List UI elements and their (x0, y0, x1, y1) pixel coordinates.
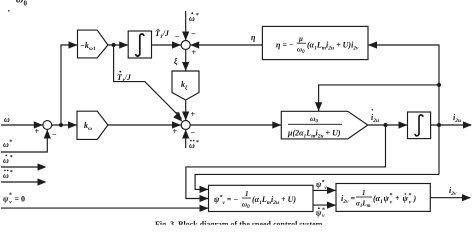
arrowhead i2v output right (462, 194, 471, 201)
arrowhead into integrator 1 (119, 41, 128, 48)
label i2u after integrator 2 (453, 113, 461, 124)
label omega-ddot-star below junction 2 (189, 140, 199, 150)
label -k_w1 inside pentagon (80, 41, 96, 52)
label omega0 top left (clipped) (16, 0, 28, 8)
integrator 2 (408, 112, 431, 139)
arrowhead into k_xi (182, 62, 189, 71)
label T1-dot/J on branch (117, 71, 132, 84)
arrowhead stub into summing junction 2 from below (182, 130, 189, 139)
node dot after integrator 2 (437, 123, 441, 127)
arrowhead into summing junction 1 from right (190, 41, 199, 48)
svg-text:ω: ω (189, 14, 195, 23)
speck left edge (8, 10, 10, 12)
wire eta block output to summing junction 1 (190, 44, 262, 46)
wire xi from summing junction 1 to k_xi (185, 50, 187, 72)
label omega input (4, 115, 10, 124)
wire k_xi output to summing junction 2 (185, 100, 187, 121)
label xi (174, 57, 178, 66)
svg-text:ω: ω (189, 141, 195, 150)
block i2v equation (336, 184, 430, 212)
arrowhead into k_w (68, 121, 77, 128)
label i2u-dot after mu block (371, 109, 379, 124)
svg-text:+: + (173, 127, 178, 136)
svg-text:−: − (175, 32, 180, 41)
wire node after mu block to psi block second input (186, 125, 386, 199)
arrowhead omega into summing junction 3 (34, 121, 43, 128)
label omega-dot-star input (3, 155, 13, 166)
arrowhead into i2v block input 1 (327, 187, 336, 194)
block k_xi pentagon (172, 71, 199, 100)
wire i2u feedback vertical to eta block input (368, 45, 439, 174)
wire psi-star=0 input line to psi block third input (1, 207, 209, 209)
arrowhead into psi block input 3 (200, 205, 209, 212)
arrowhead k_w into summing junction 2 (172, 121, 181, 128)
svg-text:1: 1 (362, 189, 366, 197)
block psi-v-star equation (209, 185, 314, 211)
svg-text:η: η (251, 33, 256, 42)
svg-text:ω: ω (3, 171, 9, 180)
svg-text:*: * (10, 170, 13, 176)
svg-text:−: − (174, 108, 179, 117)
wire -k_w1 output to integrator 1 (108, 44, 128, 46)
arrowhead omega-ddot-star open (38, 178, 47, 185)
sign plus right input junction 1 (192, 48, 197, 57)
svg-text:): ) (413, 194, 417, 203)
wire psi-v-dot-star from psi block to i2v block (313, 204, 336, 206)
block -k_w1 pentagon (78, 30, 108, 58)
caption Fig 3 (clipped at bottom) (140, 220, 420, 229)
label eta near block (251, 33, 256, 42)
sign minus bottom input junction 3 (52, 130, 57, 139)
integrator 1 (128, 31, 151, 58)
arrowhead into eta block right side (368, 41, 377, 48)
integral sign 1 (136, 34, 144, 56)
arrowhead k_xi into summing junction 2 (182, 112, 189, 121)
svg-text:ω: ω (3, 156, 9, 165)
node dot on vertical at eta branch (437, 83, 441, 87)
label k_xi inside pentagon (181, 80, 188, 92)
wire integrator 1 output to summing junction 1 (152, 44, 182, 46)
svg-text:*: * (196, 13, 199, 19)
svg-text:+: + (191, 110, 196, 119)
wire omega-ddot-star open arrow input (1, 181, 39, 183)
summing junction 2 (181, 121, 190, 130)
label omega-dot-star above junction 1 (189, 12, 199, 23)
svg-text:ω: ω (3, 140, 9, 149)
arrowhead omega-star into summing junction 3 from below (44, 130, 51, 139)
svg-text:*: * (390, 193, 393, 199)
wire mu block output to integrator 2 (368, 124, 408, 126)
label psi-v-star between blocks (316, 179, 327, 191)
label i2v output (449, 186, 457, 197)
psi block equation (214, 190, 296, 210)
wire omega-dot-star open arrow input (1, 166, 39, 168)
wire omega-ddot-star stub into summing junction 2 (185, 130, 187, 149)
svg-text:1: 1 (245, 190, 249, 198)
arrowhead into psi block input 1 (200, 186, 209, 193)
arrowhead into -k_w1 (69, 41, 78, 48)
svg-text:*: * (9, 140, 12, 146)
node dot after -k_w1 (112, 43, 116, 47)
svg-text:−: − (191, 128, 196, 137)
arrowhead into mu block top (315, 102, 322, 111)
svg-text:*: * (9, 193, 12, 199)
svg-text:η = −: η = − (276, 41, 294, 50)
arrowhead into summing junction 1 from top (182, 32, 189, 41)
label omega-star input (3, 140, 12, 150)
arrowhead diagonal into summing junction 2 (173, 112, 182, 122)
svg-text:μ: μ (298, 35, 303, 43)
svg-text:*: * (10, 155, 13, 161)
wire summing junction 3 output to k_w (52, 124, 77, 126)
arrowhead into psi block input 2 (200, 195, 209, 202)
block k_w pentagon (77, 111, 108, 139)
arrowhead into summing junction 1 from left (172, 41, 181, 48)
sign plus left input junction 3 (35, 127, 40, 136)
svg-text:ω: ω (16, 0, 23, 6)
node dot after mu block (383, 123, 387, 127)
svg-text:*: * (409, 193, 412, 199)
wire T1-dot/J branch from node after -k_w1 to summing junction 2 (114, 45, 182, 119)
arrowhead into i2v block input 2 (327, 202, 336, 209)
svg-text:+: + (35, 127, 40, 136)
sign plus left input junction 2 (173, 127, 178, 136)
sign minus diagonal input junction 2 (174, 108, 179, 117)
summing junction 3 (43, 121, 52, 130)
sign plus top input junction 2 (191, 110, 196, 119)
label psi-star equals zero (3, 193, 25, 206)
svg-text:*: * (196, 140, 199, 146)
block mu equation pentagon (281, 111, 368, 139)
arrowhead omega-dot-star open (38, 163, 47, 170)
label k_w inside pentagon (84, 121, 92, 132)
label omega-ddot-star input (3, 170, 13, 180)
arrowhead into integrator 2 (399, 121, 408, 128)
label T1-hat/J (155, 28, 170, 40)
svg-text:ω: ω (4, 115, 10, 124)
wire feedback from speed error node up to -k_w1 input (61, 45, 78, 125)
wire omega-dot-star input into summing junction 1 (185, 11, 187, 41)
wire integrator 2 output i2u to right edge (431, 124, 471, 126)
svg-text:0: 0 (24, 0, 28, 8)
wire k_w output to summing junction 2 (108, 124, 181, 126)
svg-text:−: − (191, 29, 196, 38)
arrowhead into mu block (272, 121, 281, 128)
wire summing junction 2 to mu block (190, 124, 281, 126)
arrowhead i2u output right (463, 121, 472, 128)
wire i2u to psi block first input (195, 174, 439, 189)
eta equation text (276, 35, 359, 55)
mu block fraction (287, 114, 342, 140)
i2v block equation (341, 189, 417, 209)
svg-text:ξ: ξ (174, 57, 178, 66)
wire branch to mu block top input (319, 85, 439, 111)
svg-text:+: + (192, 48, 197, 57)
integral sign 2 (415, 115, 423, 136)
svg-text:+: + (395, 194, 400, 203)
label psi-v-dot-star between blocks (316, 207, 325, 219)
block eta equation (262, 26, 368, 59)
sign minus bottom input junction 2 (191, 128, 196, 137)
wire psi-v-star from psi block to i2v block (313, 189, 336, 191)
node dot feedback at speed line (59, 123, 63, 127)
sign minus top input junction 1 (191, 29, 196, 38)
wire omega-star input to summing junction 3 (1, 130, 47, 153)
svg-text:−: − (52, 130, 57, 139)
svg-text:= 0: = 0 (15, 194, 26, 203)
sign minus left input junction 1 (175, 32, 180, 41)
summing junction 1 (181, 41, 190, 50)
wire i2v output to right edge (430, 197, 470, 199)
wire omega input to summing junction 3 (1, 124, 43, 126)
